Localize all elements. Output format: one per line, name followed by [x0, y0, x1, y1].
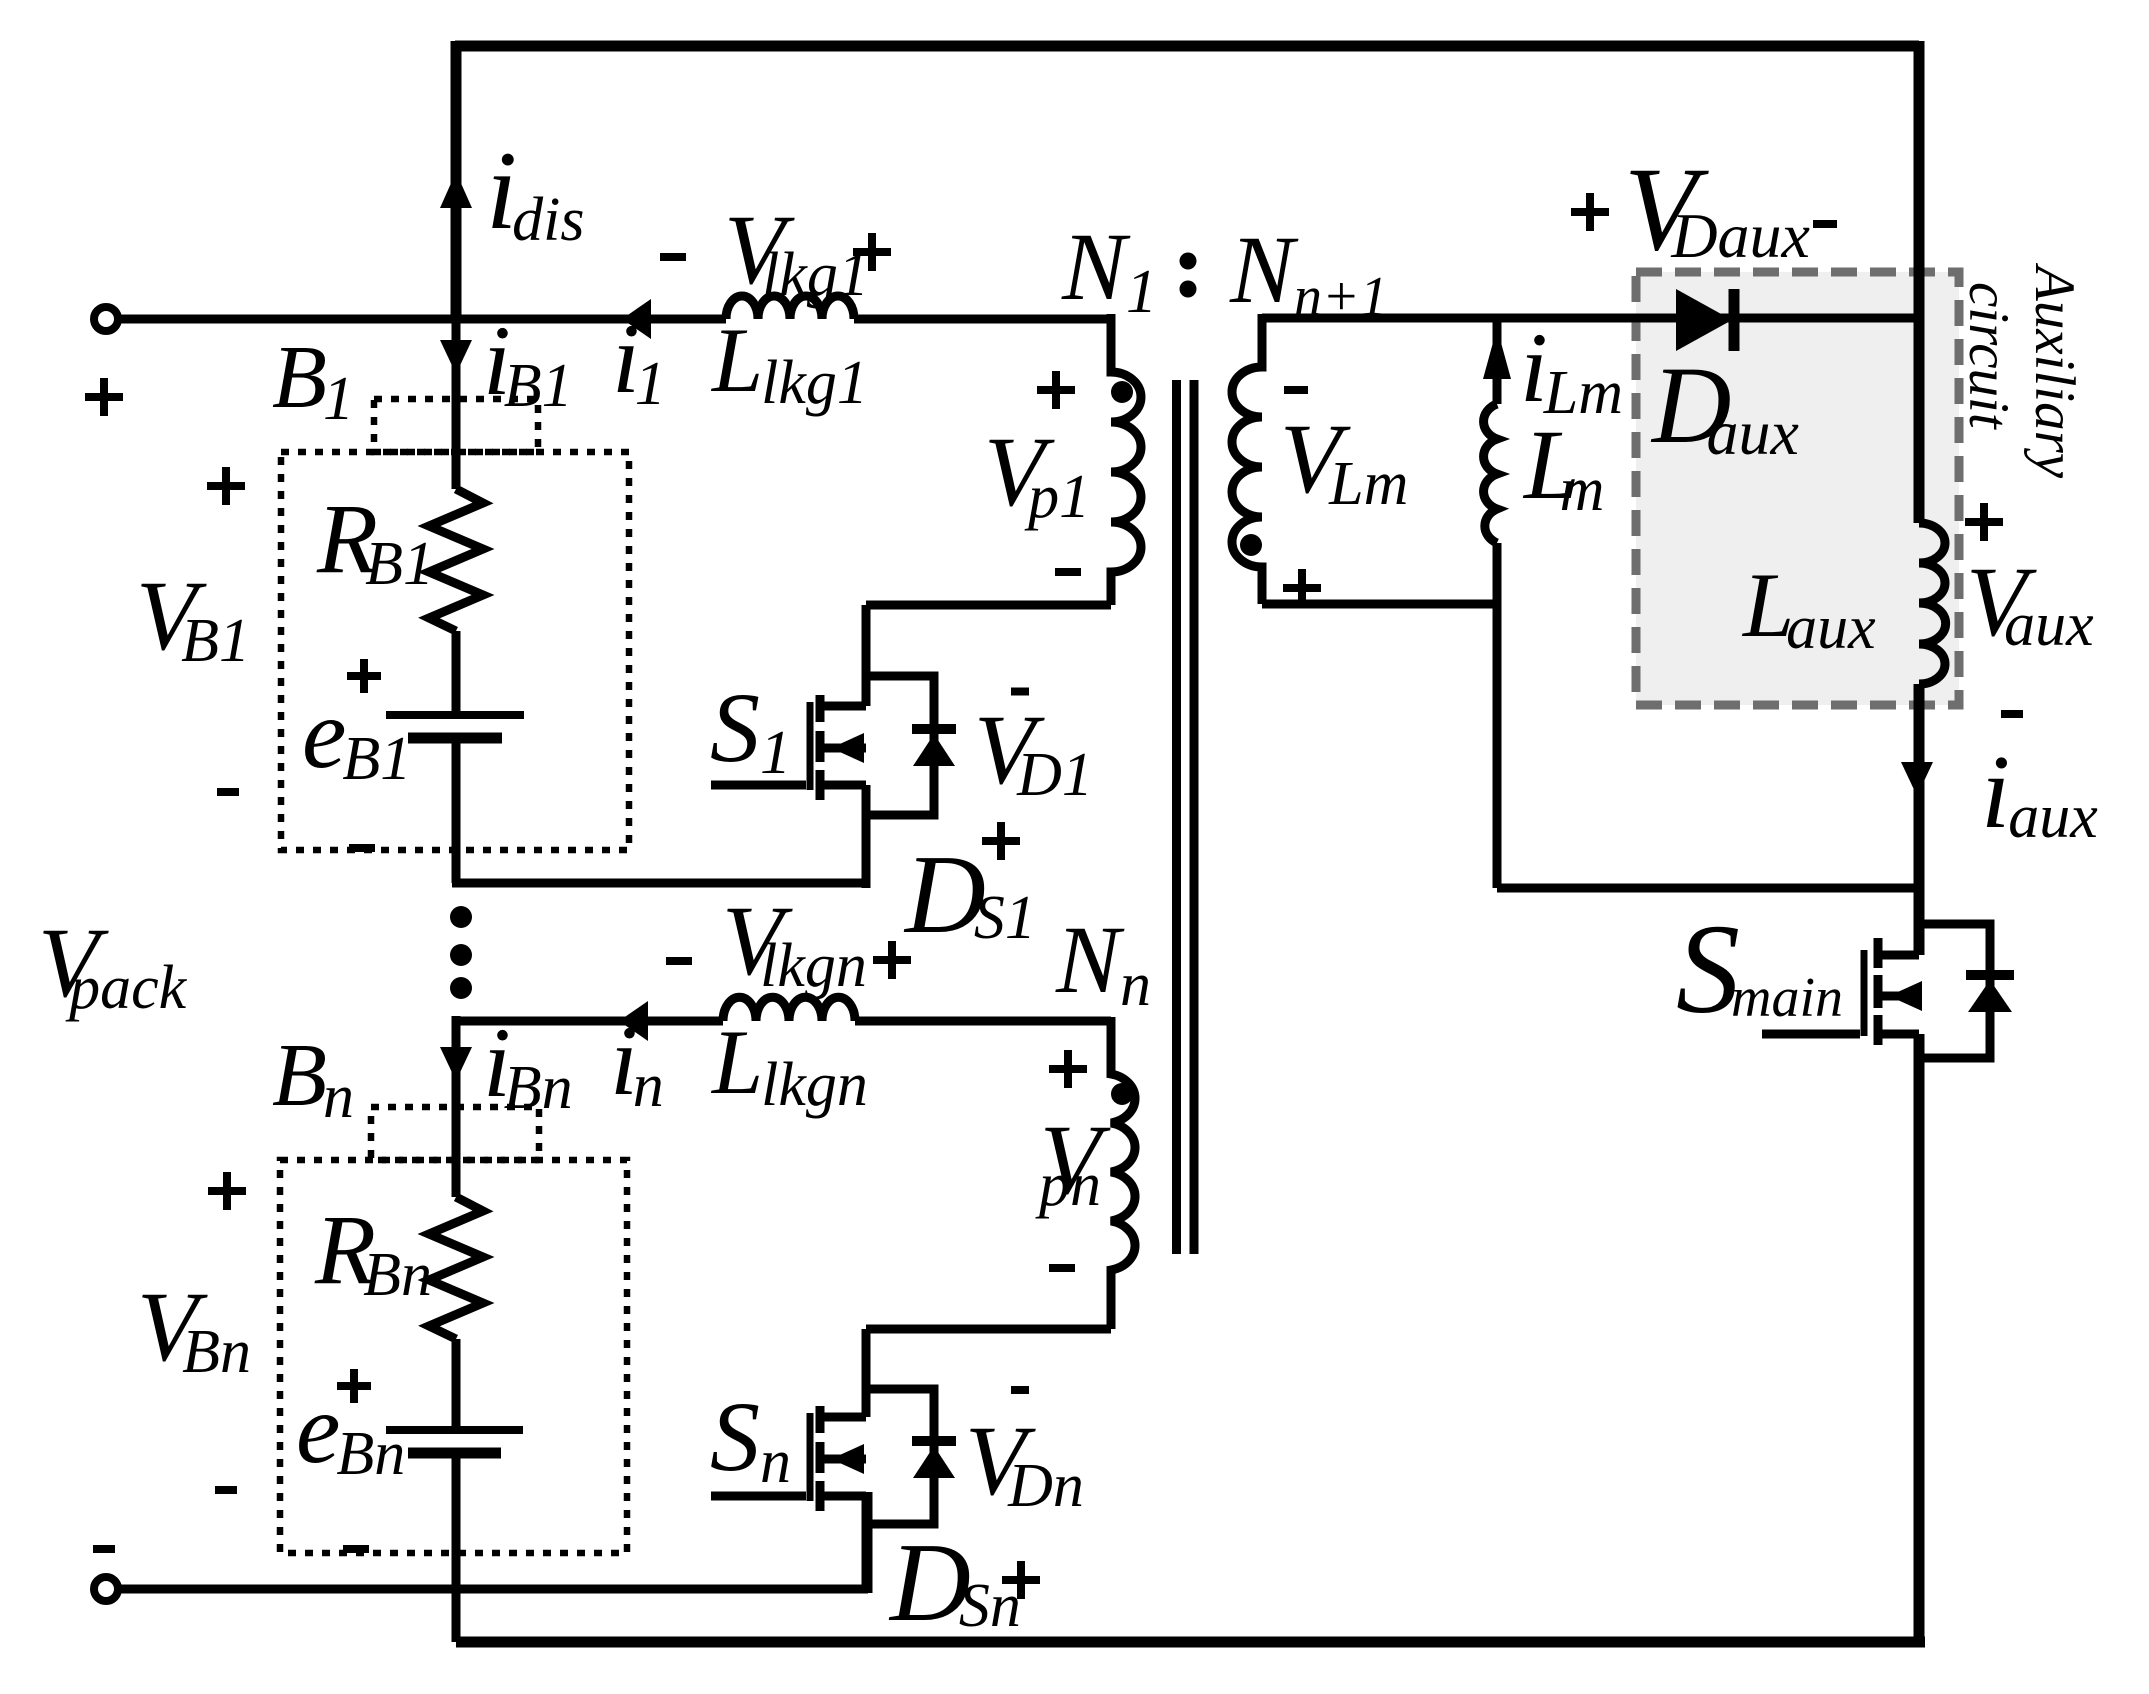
label V_Daux plus — [1571, 193, 1609, 231]
transistor S1 gate lead — [711, 781, 806, 790]
wire bottom bus — [456, 1637, 1925, 1648]
battery Bn tab dashed box — [371, 1107, 539, 1160]
transistor Sn source lead — [824, 1492, 866, 1501]
battery B1 model dashed box — [281, 452, 629, 850]
arrow i_n left — [619, 1001, 648, 1041]
wire battery1 column upper — [452, 319, 461, 489]
winding Nn+1 secondary — [1232, 314, 1262, 604]
auxiliary circuit shaded box — [1636, 272, 1959, 705]
label V_pn minus — [1049, 1264, 1075, 1272]
transformer core — [1177, 380, 1195, 1254]
wire e_B1 to cell bottom — [452, 738, 866, 883]
label e_B1 plus — [347, 659, 381, 693]
arrow i_aux down — [1901, 762, 1933, 796]
inductor L_m — [1484, 404, 1497, 543]
transistor S_main gate lead — [1762, 1030, 1860, 1039]
diode D_S1 cathode bar — [912, 724, 956, 734]
label V_Bn plus — [208, 1172, 246, 1210]
label V_lkg1 minus — [660, 253, 686, 261]
transistor S1 drain lead — [824, 702, 866, 711]
diode D_Sn triangle — [913, 1446, 955, 1478]
wire Lm branch top — [1493, 318, 1502, 404]
wire Sn source vertical — [862, 1496, 871, 1593]
winding N1 dot — [1111, 381, 1133, 403]
wire bottom terminal horizontal — [118, 1492, 868, 1593]
diode D_Smain loop — [1919, 924, 1990, 1058]
label V_pack plus — [85, 378, 123, 416]
transistor Sn gate bar — [807, 1413, 814, 1501]
winding Nn dot — [1111, 1083, 1133, 1105]
winding N1 primary — [1111, 314, 1141, 605]
transistor S1 gate bar — [807, 702, 814, 790]
battery e_Bn plates — [386, 1426, 523, 1434]
ellipsis dots between cells — [450, 906, 472, 928]
transistor Sn drain lead — [824, 1413, 866, 1422]
transistor S_main body arrow — [1878, 992, 1919, 1001]
arrow i_Bn down — [440, 1047, 472, 1081]
wire S1 source vertical — [862, 785, 871, 888]
terminal top-left circle — [94, 307, 118, 331]
label V_Lm plus — [1283, 569, 1321, 607]
transistor S1 body arrow — [820, 744, 866, 753]
label e_Bn minus — [343, 1545, 369, 1553]
wire e_Bn to bottom bus — [452, 1453, 461, 1642]
label V_p1 minus — [1055, 568, 1081, 576]
transistor Sn body arrow — [820, 1455, 866, 1464]
wire R_Bn to e_Bn — [452, 1339, 461, 1427]
transistor Sn channel bars — [816, 1406, 825, 1511]
label e_Bn plus — [337, 1369, 371, 1403]
wire row-n horizontal — [456, 1017, 1111, 1026]
inductor L_lkgn — [723, 997, 855, 1021]
wire top bus — [455, 41, 1919, 52]
diode D_Sn cathode bar — [912, 1436, 956, 1446]
label V_B1 minus — [217, 788, 239, 796]
winding Nn+1 dot — [1240, 534, 1262, 556]
winding Nn primary — [1111, 1017, 1135, 1329]
wire right rail lower — [1914, 1034, 1925, 1642]
battery Bn model dashed box — [280, 1160, 627, 1553]
transistor Sn gate lead — [711, 1492, 806, 1501]
wire S1 drain vertical — [862, 605, 871, 706]
svg-text:Auxiliary: Auxiliary — [2023, 262, 2086, 479]
label V_Bn minus — [215, 1486, 237, 1494]
transistor S_main drain lead — [1878, 951, 1919, 960]
label V_Dn minus — [1011, 1386, 1029, 1394]
arrow i_B1 down — [440, 340, 472, 374]
wire right rail upper — [1914, 41, 1925, 523]
wire winding-n bottom — [866, 1325, 1111, 1329]
label D_Sn plus — [1002, 1561, 1040, 1599]
transistor S_main gate bar — [1861, 950, 1868, 1036]
diode D_S1 triangle — [913, 734, 955, 766]
diode D_Sn loop — [866, 1389, 934, 1524]
diode D_Smain cathode bar — [1966, 970, 2014, 980]
label V_B1 plus — [207, 467, 245, 505]
battery e_B1 plates — [386, 711, 524, 719]
label V_lkg1 plus — [853, 233, 891, 271]
transistor S_main channel bars — [1874, 938, 1883, 1045]
inductor L_aux — [1919, 523, 1946, 684]
label V_D1 minus — [1011, 688, 1029, 696]
wire R_B1 to e_B1 — [452, 631, 461, 712]
wire left column top segment — [451, 41, 462, 319]
diode D_Smain triangle — [1968, 980, 2012, 1012]
label V_lkgn plus — [873, 941, 911, 979]
resistor R_B1 — [429, 489, 483, 631]
label V_aux minus — [2001, 710, 2023, 718]
wire winding1 bottom — [866, 601, 1111, 605]
wire rail aux to Smain — [1914, 684, 1925, 955]
transistor S1 source lead — [824, 781, 866, 790]
wire Sn drain vertical — [862, 1329, 871, 1417]
transistor S_main source lead — [1878, 1030, 1919, 1039]
label V_Lm minus — [1284, 386, 1308, 394]
wire Lm branch bottom — [1497, 543, 1919, 888]
inductor L_lkg1 — [726, 296, 854, 319]
resistor R_Bn — [429, 1197, 483, 1339]
terminal bottom-left circle — [94, 1577, 118, 1601]
label D_S1 plus — [982, 822, 1020, 860]
label V_lkgn minus — [666, 957, 692, 965]
label V_p1 plus — [1037, 371, 1075, 409]
wire battery-n column upper — [452, 1016, 461, 1197]
diode D_aux — [1676, 289, 1732, 351]
wire secondary top — [1262, 314, 1919, 323]
wire secondary bottom — [1262, 600, 1497, 609]
label terminal minus — [93, 1545, 115, 1553]
arrow i_Lm up — [1483, 328, 1511, 379]
svg-text:circuit: circuit — [1957, 282, 2020, 430]
label V_pn plus — [1049, 1050, 1087, 1088]
battery B1 tab dashed box — [374, 399, 538, 452]
transistor S1 channel bars — [816, 695, 825, 800]
label auxiliary circuit rotated — [1957, 262, 2086, 479]
diode D_S1 loop — [866, 676, 934, 815]
wire top-left horizontal — [118, 315, 1111, 324]
svg-text:Vpn: Vpn — [1035, 1104, 1111, 1219]
arrow i_1 left — [622, 299, 651, 339]
arrow i_dis up — [440, 172, 472, 208]
label V_aux plus — [1965, 503, 2003, 541]
label e_B1 minus — [349, 844, 375, 852]
label V_Daux minus — [1813, 220, 1837, 228]
label colon — [1180, 253, 1197, 270]
